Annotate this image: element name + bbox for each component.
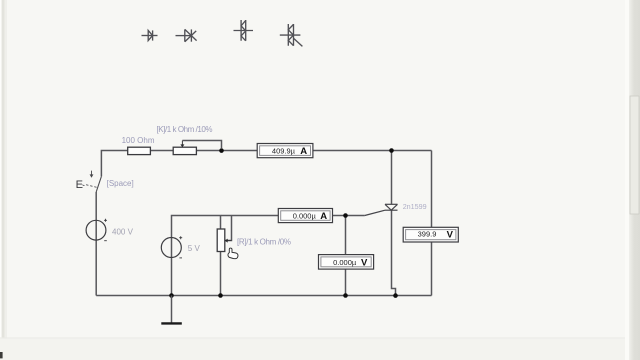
svg-text:409.9µ: 409.9µ <box>272 146 296 155</box>
svg-text:5 V: 5 V <box>188 244 201 253</box>
wire pot K to ammeter A1 <box>196 150 258 152</box>
switch S1 blade <box>96 176 101 192</box>
svg-text:A: A <box>320 211 327 222</box>
wire 5V source top to pot R <box>172 216 221 238</box>
wire SCR cathode with jog <box>392 210 396 295</box>
ground <box>161 296 182 324</box>
toolbar icon diode 1 <box>142 30 158 40</box>
wire SCR anode <box>391 151 393 205</box>
potentiometer K <box>173 141 221 155</box>
svg-text:E: E <box>76 179 83 191</box>
svg-text:0.000µ: 0.000µ <box>333 258 357 267</box>
wire gate horizontal <box>346 215 365 217</box>
junction node 5V bottom / ground <box>169 293 174 298</box>
source V1 400V <box>86 219 107 241</box>
potentiometer R <box>217 229 231 252</box>
svg-text:V: V <box>447 230 454 241</box>
ammeter A1 <box>257 144 313 158</box>
wire pot R bottom <box>220 252 222 296</box>
svg-text:2n1599: 2n1599 <box>403 202 427 211</box>
ammeter A2 <box>278 209 332 223</box>
toolbar icon triac 4 <box>280 24 303 46</box>
wire 5V source bottom <box>171 258 173 296</box>
wire right branch lower (voltmeter V1 to bottom) <box>431 242 433 296</box>
junction node voltmeter V2 bottom <box>343 293 348 298</box>
wire ammeter A1 to right corner <box>313 150 432 152</box>
junction node pot R bottom <box>218 293 223 298</box>
junction node gate / voltmeter V2 <box>343 213 348 218</box>
svg-text:399.9: 399.9 <box>418 230 437 239</box>
svg-text:400 V: 400 V <box>112 228 134 237</box>
wire top-left corner to resistor <box>101 151 127 177</box>
wire resistor to pot K <box>151 150 174 152</box>
switch S1 control dashed link <box>83 185 99 188</box>
toolbar icon diac 3 <box>234 20 254 41</box>
svg-text:0.000µ: 0.000µ <box>293 212 317 221</box>
toolbar icon diode 2 <box>176 29 197 41</box>
wire through 400V source <box>95 220 97 240</box>
switch S1 actuate arrow <box>90 171 94 178</box>
wire ammeter A2 to gate node <box>333 215 346 217</box>
source V2 5V <box>161 236 182 258</box>
thyristor U1 2n1599 <box>365 204 398 215</box>
wire through 5V source <box>171 238 173 258</box>
junction node SCR anode / top rail <box>389 148 394 153</box>
wire voltmeter V2 upper <box>345 216 347 255</box>
wire pot R wiper to ammeter A2 <box>221 216 278 241</box>
svg-text:100 Ohm: 100 Ohm <box>122 136 155 145</box>
junction node SCR cathode bottom <box>393 293 398 298</box>
resistor R1 100 Ohm <box>128 147 151 154</box>
wire right branch upper (to voltmeter V1) <box>431 151 433 228</box>
mouse hand cursor <box>228 248 238 259</box>
svg-text:[Space]: [Space] <box>107 179 134 188</box>
wire voltmeter V2 lower <box>345 269 347 295</box>
wire bottom rail <box>96 295 431 297</box>
svg-text:[K]/1 k Ohm /10%: [K]/1 k Ohm /10% <box>157 125 213 134</box>
wire 400V source to bottom rail <box>95 240 97 295</box>
voltmeter V1 <box>403 227 458 242</box>
svg-text:[R]/1 k Ohm /0%: [R]/1 k Ohm /0% <box>237 237 291 246</box>
junction node pot K / top rail <box>219 148 224 153</box>
wire switch to 400V source <box>95 192 97 220</box>
svg-text:V: V <box>361 258 368 269</box>
voltmeter V2 <box>319 255 374 270</box>
svg-text:A: A <box>300 146 307 157</box>
